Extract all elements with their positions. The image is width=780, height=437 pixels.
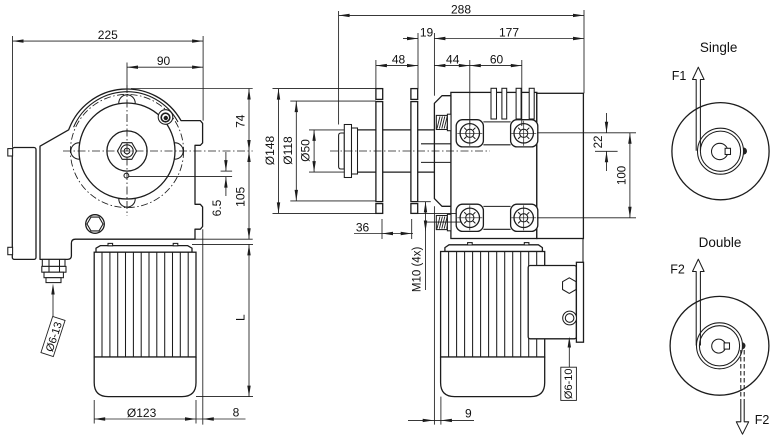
svg-text:Ø118: Ø118 [281, 136, 295, 165]
svg-text:105: 105 [234, 186, 248, 206]
svg-text:288: 288 [451, 3, 471, 17]
svg-text:Double: Double [699, 235, 742, 250]
svg-text:60: 60 [490, 53, 504, 67]
svg-text:Ø123: Ø123 [127, 406, 157, 420]
svg-text:M10 (4x): M10 (4x) [412, 247, 424, 293]
svg-text:9: 9 [465, 406, 472, 420]
svg-text:Ø50: Ø50 [299, 139, 313, 162]
svg-text:19: 19 [420, 26, 434, 40]
svg-text:F2: F2 [670, 263, 685, 277]
svg-text:Ø148: Ø148 [263, 135, 277, 165]
svg-text:Ø6-10: Ø6-10 [563, 369, 575, 400]
svg-text:L: L [234, 314, 248, 321]
svg-text:100: 100 [616, 166, 628, 185]
svg-text:177: 177 [499, 26, 519, 40]
svg-text:8: 8 [233, 406, 240, 420]
svg-text:90: 90 [157, 54, 171, 68]
svg-text:F1: F1 [672, 69, 687, 83]
svg-text:36: 36 [356, 221, 370, 235]
svg-text:44: 44 [446, 53, 460, 67]
svg-text:F2: F2 [755, 413, 770, 427]
svg-text:225: 225 [98, 28, 118, 42]
svg-text:Single: Single [700, 40, 738, 55]
svg-text:6.5: 6.5 [210, 199, 224, 216]
svg-text:48: 48 [392, 53, 406, 67]
svg-text:74: 74 [234, 114, 248, 128]
svg-text:22: 22 [593, 136, 605, 149]
